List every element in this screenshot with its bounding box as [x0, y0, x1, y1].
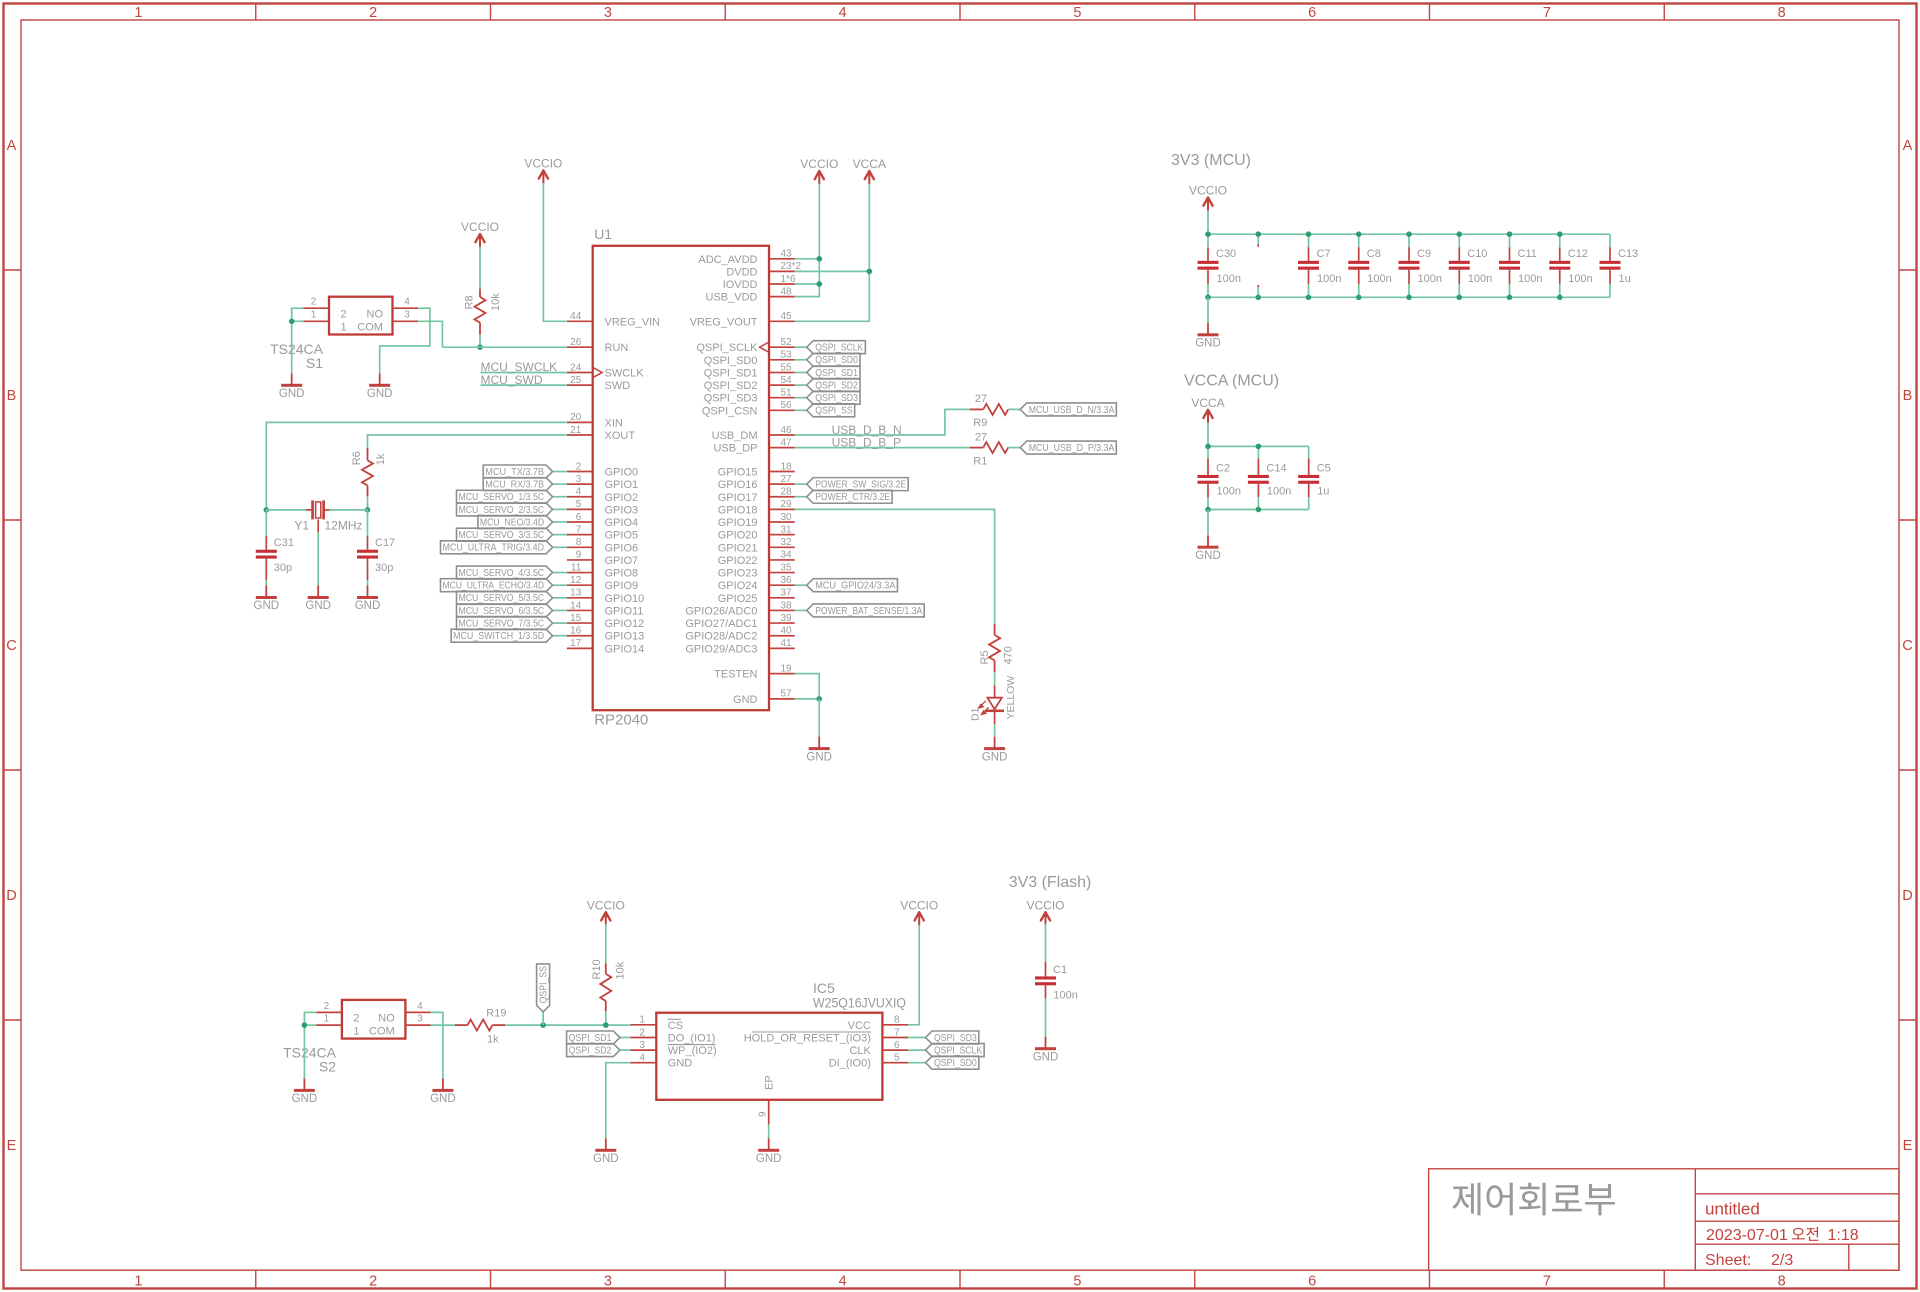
wire to MCU_ULTRA_TRIG/3.4D — [553, 546, 567, 548]
U1 pin 48 USB_VDD — [706, 286, 795, 303]
svg-text:GND: GND — [355, 600, 381, 612]
svg-text:TESTEN: TESTEN — [714, 669, 757, 681]
S1 pin 3 — [393, 320, 419, 322]
capacitor C2 100n — [1198, 446, 1241, 509]
wire to MCU_SERVO_5/3.5C — [553, 597, 567, 599]
svg-text:GND: GND — [1195, 550, 1221, 562]
svg-text:D1: D1 — [970, 707, 982, 721]
svg-text:QSPI_SCLK: QSPI_SCLK — [934, 1046, 982, 1057]
svg-text:GPIO5: GPIO5 — [605, 530, 639, 542]
wire to MCU_SERVO_2/3.5C — [553, 508, 567, 510]
svg-text:C14: C14 — [1266, 463, 1286, 475]
svg-text:GPIO16: GPIO16 — [718, 479, 758, 491]
net flag QSPI_SD2 — [807, 379, 860, 392]
S2 pin 3 — [405, 1024, 431, 1026]
svg-text:40: 40 — [781, 626, 793, 637]
svg-text:Y1: Y1 — [294, 518, 309, 532]
junction — [816, 696, 822, 702]
svg-text:GPIO4: GPIO4 — [605, 517, 639, 529]
svg-text:37: 37 — [781, 588, 793, 599]
U1 pin 19 TESTEN — [714, 663, 795, 680]
svg-text:6: 6 — [576, 512, 582, 523]
junction — [1256, 507, 1262, 513]
svg-text:QSPI_SD0: QSPI_SD0 — [815, 355, 858, 366]
svg-text:100n: 100n — [1217, 273, 1241, 285]
svg-text:29: 29 — [781, 499, 793, 510]
svg-text:XOUT: XOUT — [605, 430, 636, 442]
U1 pin 32 GPIO21 — [718, 537, 795, 554]
svg-text:COM: COM — [369, 1025, 395, 1037]
svg-text:44: 44 — [570, 311, 582, 322]
svg-text:MCU_SERVO_2/3.5C: MCU_SERVO_2/3.5C — [459, 505, 545, 516]
S1 pin 4 — [393, 307, 419, 309]
svg-text:HOLD_OR_RESET_(IO3): HOLD_OR_RESET_(IO3) — [744, 1033, 871, 1045]
wire to POWER_SW_SIG/3.2E — [795, 483, 807, 485]
svg-text:30: 30 — [781, 512, 793, 523]
svg-text:1k: 1k — [487, 1034, 499, 1046]
svg-text:4: 4 — [839, 1273, 847, 1289]
svg-text:32: 32 — [781, 537, 793, 548]
U1 pin 15 GPIO12 — [567, 613, 644, 630]
U1 pin 12 GPIO9 — [567, 575, 638, 592]
U1 pin 13 GPIO10 — [567, 588, 644, 605]
net flag MCU_TX/3.7B — [483, 465, 552, 478]
svg-text:C12: C12 — [1568, 248, 1588, 260]
junction — [1406, 295, 1412, 301]
svg-text:QSPI_SD0: QSPI_SD0 — [934, 1058, 977, 1069]
U1 pin 41 GPIO29/ADC3 — [685, 638, 794, 655]
svg-text:27: 27 — [781, 474, 793, 485]
svg-text:C7: C7 — [1317, 248, 1331, 260]
wire S1 pin1 join — [292, 320, 304, 322]
svg-text:C13: C13 — [1618, 248, 1638, 260]
svg-text:3: 3 — [404, 310, 410, 321]
svg-text:51: 51 — [781, 388, 793, 399]
svg-text:1k: 1k — [375, 453, 387, 465]
svg-text:A: A — [1903, 138, 1913, 154]
svg-text:57: 57 — [781, 689, 793, 700]
svg-text:GND: GND — [254, 600, 280, 612]
svg-text:GPIO29/ADC3: GPIO29/ADC3 — [685, 643, 757, 655]
svg-text:38: 38 — [781, 600, 793, 611]
svg-text:A: A — [7, 138, 17, 154]
ground under D1 — [994, 737, 996, 748]
power VCCIO at R8 — [475, 234, 484, 242]
svg-text:11: 11 — [571, 562, 582, 573]
svg-text:GND: GND — [430, 1093, 456, 1105]
S2 pin 4 — [405, 1011, 431, 1013]
junction — [289, 319, 295, 325]
net flag MCU_SERVO_2/3.5C — [457, 503, 553, 516]
svg-text:GPIO19: GPIO19 — [718, 517, 758, 529]
wire to QSPI_SD3 — [795, 397, 807, 399]
svg-text:100n: 100n — [1468, 273, 1492, 285]
svg-text:GPIO3: GPIO3 — [605, 504, 639, 516]
svg-text:12: 12 — [570, 575, 582, 586]
svg-text:C2: C2 — [1216, 463, 1230, 475]
wire QSPI_SS stub — [542, 1012, 544, 1025]
power VCCIO at R10 — [601, 912, 610, 920]
svg-text:1: 1 — [134, 5, 142, 21]
U1 pin 20 XIN — [567, 412, 623, 429]
svg-text:VCC: VCC — [848, 1020, 871, 1032]
wire to POWER_BAT_SENSE/1.3A — [795, 609, 807, 611]
junction RUN/R8 — [477, 344, 483, 350]
svg-text:QSPI_SD1: QSPI_SD1 — [569, 1033, 612, 1044]
wire VCCIO to VREG_VIN — [543, 183, 567, 321]
svg-text:R8: R8 — [464, 295, 476, 309]
U1 pin 53 QSPI_SD0 — [704, 350, 795, 367]
svg-text:20: 20 — [570, 412, 582, 423]
svg-text:8: 8 — [576, 537, 582, 548]
wire S1 left pins to GND — [292, 308, 304, 373]
U1 pin 45 VREG_VOUT — [690, 311, 795, 328]
net flag MCU_SERVO_3/3.5C — [457, 528, 553, 541]
svg-text:VCCIO: VCCIO — [800, 157, 838, 171]
svg-text:VCCIO: VCCIO — [587, 898, 625, 912]
ground under S2 left — [303, 1078, 305, 1089]
wire to MCU_GPIO24/3.3A — [795, 584, 807, 586]
svg-text:4: 4 — [639, 1053, 645, 1064]
ground under S1 left — [291, 373, 293, 384]
capacitor C11 100n — [1499, 234, 1542, 297]
svg-text:QSPI_SCLK: QSPI_SCLK — [696, 342, 758, 354]
ground under C1 — [1045, 1037, 1047, 1048]
svg-text:3: 3 — [639, 1040, 645, 1051]
net flag MCU_SERVO_5/3.5C — [457, 591, 553, 604]
IC5 pin 5 DI_(IO0) — [829, 1053, 908, 1070]
U1 pin 29 GPIO18 — [718, 499, 795, 516]
svg-text:VREG_VOUT: VREG_VOUT — [690, 316, 758, 328]
wire DVDD to VCCA — [795, 270, 870, 272]
net flag MCU_SERVO_6/3.5C — [457, 604, 553, 617]
svg-text:4: 4 — [839, 5, 847, 21]
capacitor C8 100n — [1348, 234, 1391, 297]
net flag MCU_USB_D_P/3.3A — [1020, 441, 1116, 454]
wire rail to ground — [1207, 510, 1209, 536]
svg-text:S2: S2 — [319, 1058, 336, 1074]
svg-text:C11: C11 — [1518, 248, 1537, 260]
power VCCIO at VREG_VIN — [539, 170, 548, 178]
junction crystal right — [365, 507, 371, 513]
svg-text:7: 7 — [1543, 1273, 1551, 1289]
svg-text:R1: R1 — [973, 455, 987, 467]
svg-text:MCU_SERVO_1/3.5C: MCU_SERVO_1/3.5C — [459, 492, 545, 503]
net flag POWER_BAT_SENSE/1.3A — [807, 604, 925, 617]
svg-text:C: C — [6, 638, 16, 654]
svg-text:24: 24 — [570, 362, 582, 373]
junction — [1306, 231, 1312, 237]
svg-text:1: 1 — [311, 310, 317, 321]
wire to MCU_SERVO_6/3.5C — [553, 609, 567, 611]
resistor R5 470 — [979, 624, 1015, 672]
svg-text:GPIO23: GPIO23 — [718, 568, 758, 580]
svg-text:R19: R19 — [486, 1008, 506, 1020]
junction — [1306, 295, 1312, 301]
svg-text:MCU_GPIO24/3.3A: MCU_GPIO24/3.3A — [815, 581, 896, 592]
junction — [1255, 295, 1261, 301]
svg-text:47: 47 — [781, 437, 793, 448]
net flag MCU_USB_D_N/3.3A — [1020, 403, 1116, 416]
U1 pin 38 GPIO26/ADC0 — [685, 600, 794, 617]
svg-text:2: 2 — [639, 1027, 645, 1038]
wire VCCIO to R8 — [479, 247, 481, 289]
svg-text:VCCIO: VCCIO — [900, 898, 938, 912]
svg-text:GPIO20: GPIO20 — [718, 530, 758, 542]
svg-text:9: 9 — [576, 550, 582, 561]
svg-text:untitled: untitled — [1705, 1199, 1760, 1218]
svg-text:13: 13 — [570, 588, 582, 599]
resistor R10 10k — [591, 959, 627, 1011]
svg-text:B: B — [1903, 388, 1913, 404]
S1 pin 2 — [303, 307, 329, 309]
U1 pin 26 RUN — [567, 337, 628, 354]
svg-text:GND: GND — [982, 751, 1008, 763]
svg-text:19: 19 — [781, 663, 793, 674]
svg-text:QSPI_SS: QSPI_SS — [539, 966, 550, 1004]
capacitor C7 100n — [1298, 234, 1341, 297]
svg-text:31: 31 — [781, 524, 793, 535]
svg-text:GND: GND — [367, 388, 393, 400]
wire to QSPI_SCLK — [795, 346, 807, 348]
svg-text:2: 2 — [369, 1273, 377, 1289]
svg-text:1*6: 1*6 — [781, 274, 796, 285]
wire S1 pin3 to RUN — [418, 321, 442, 347]
power VCCIO at IC5 VCC — [915, 912, 924, 920]
svg-text:D: D — [6, 888, 16, 904]
svg-text:RUN: RUN — [605, 342, 629, 354]
wire net MCU_SWD — [481, 384, 567, 386]
svg-text:SWD: SWD — [605, 380, 631, 392]
svg-text:USB_DM: USB_DM — [712, 430, 758, 442]
svg-text:2: 2 — [311, 297, 317, 308]
wire to QSPI_SD0 — [908, 1062, 925, 1064]
svg-text:QSPI_SD0: QSPI_SD0 — [704, 355, 758, 367]
crystal Y1 12MHz — [266, 500, 367, 532]
svg-text:GPIO6: GPIO6 — [605, 542, 639, 554]
svg-text:2/3: 2/3 — [1771, 1252, 1793, 1269]
svg-text:MCU_SERVO_3/3.5C: MCU_SERVO_3/3.5C — [459, 530, 545, 541]
net flag MCU_ULTRA_TRIG/3.4D — [440, 541, 552, 554]
svg-text:DO_(IO1): DO_(IO1) — [668, 1033, 716, 1045]
wire net MCU_SWCLK — [481, 372, 567, 374]
svg-text:EP: EP — [764, 1075, 776, 1090]
U1 pin 7 GPIO5 — [567, 524, 638, 541]
svg-text:GPIO21: GPIO21 — [718, 542, 758, 554]
svg-text:GPIO26/ADC0: GPIO26/ADC0 — [685, 605, 757, 617]
svg-text:27: 27 — [975, 393, 987, 405]
svg-text:C1: C1 — [1053, 964, 1067, 976]
U1 pin 5 GPIO3 — [567, 499, 638, 516]
U1 pin 17 GPIO14 — [567, 638, 644, 655]
svg-text:17: 17 — [570, 638, 582, 649]
resistor R1 27 — [970, 431, 1021, 467]
wire EP to ground — [768, 1125, 770, 1139]
wire to QSPI_SCLK — [908, 1049, 925, 1051]
svg-text:52: 52 — [781, 337, 793, 348]
svg-text:QSPI_SS: QSPI_SS — [815, 406, 853, 417]
net flag MCU_SWITCH_1/3.5D — [451, 629, 552, 642]
junction — [1205, 507, 1211, 513]
wire to MCU_SERVO_7/3.5C — [553, 622, 567, 624]
svg-text:55: 55 — [781, 362, 793, 373]
svg-text:100n: 100n — [1568, 273, 1592, 285]
ground under U1 — [818, 737, 820, 748]
svg-text:MCU_USB_D_P/3.3A: MCU_USB_D_P/3.3A — [1029, 443, 1115, 454]
svg-text:QSPI_SCLK: QSPI_SCLK — [815, 343, 863, 354]
U1 pin 14 GPIO11 — [567, 600, 644, 617]
svg-text:GPIO14: GPIO14 — [605, 643, 645, 655]
capacitor C17 30p — [357, 510, 395, 586]
svg-text:R5: R5 — [979, 650, 991, 664]
svg-text:GPIO11: GPIO11 — [605, 605, 644, 617]
svg-text:CLK: CLK — [849, 1045, 871, 1057]
wire pin57 GND — [795, 698, 819, 700]
U1 pin 25 SWD — [567, 375, 630, 392]
S1 pin 1 — [303, 320, 329, 322]
svg-text:R9: R9 — [973, 417, 987, 429]
ground under C17 — [367, 586, 369, 597]
power VCCIO above U1 — [815, 171, 824, 179]
wire S2 pin3 to R19 — [431, 1024, 456, 1026]
svg-text:DVDD: DVDD — [726, 266, 757, 278]
junction — [1205, 231, 1211, 237]
svg-text:12MHz: 12MHz — [325, 518, 363, 532]
svg-text:WP_(IO2): WP_(IO2) — [668, 1045, 717, 1057]
U1 pin 11 GPIO8 — [567, 562, 638, 579]
net flag MCU_NEO/3.4D — [478, 516, 553, 529]
svg-text:100n: 100n — [1267, 485, 1291, 497]
svg-text:16: 16 — [570, 626, 582, 637]
U1 pin 44 VREG_VIN — [567, 311, 660, 328]
wire XIN to crystal — [266, 422, 567, 510]
svg-text:6: 6 — [1308, 5, 1316, 21]
svg-text:5: 5 — [1073, 1273, 1081, 1289]
svg-text:XIN: XIN — [605, 417, 623, 429]
U1 pin 3 GPIO1 — [567, 474, 638, 491]
svg-text:5: 5 — [1073, 5, 1081, 21]
svg-text:35: 35 — [781, 562, 793, 573]
junction crystal left — [264, 507, 270, 513]
net flag MCU_SERVO_7/3.5C — [457, 617, 553, 630]
svg-text:MCU_SERVO_4/3.5C: MCU_SERVO_4/3.5C — [459, 568, 545, 579]
capacitor C30 100n — [1198, 234, 1241, 297]
svg-text:QSPI_SD2: QSPI_SD2 — [815, 381, 858, 392]
svg-text:C9: C9 — [1417, 248, 1431, 260]
svg-text:MCU_SWITCH_1/3.5D: MCU_SWITCH_1/3.5D — [453, 631, 544, 642]
svg-text:GND: GND — [593, 1153, 619, 1165]
junction QSPI_SS — [540, 1022, 546, 1028]
svg-text:GND: GND — [1033, 1051, 1059, 1063]
ground under VCCA bank — [1207, 535, 1209, 546]
svg-text:GND: GND — [279, 388, 305, 400]
svg-text:GPIO8: GPIO8 — [605, 568, 639, 580]
svg-text:QSPI_SD3: QSPI_SD3 — [704, 393, 758, 405]
wire R8 to RUN net — [479, 335, 481, 348]
junction — [1255, 231, 1261, 237]
wire rail to ground — [1207, 297, 1209, 323]
U1 pin 16 GPIO13 — [567, 626, 644, 643]
resistor R9 27 — [970, 393, 1021, 429]
svg-text:GPIO1: GPIO1 — [605, 479, 639, 491]
svg-text:MCU_TX/3.7B: MCU_TX/3.7B — [485, 467, 544, 478]
capacitor C31 30p — [256, 510, 294, 586]
svg-text:8: 8 — [1778, 1273, 1786, 1289]
wire to MCU_ULTRA_ECHO/3.4D — [553, 584, 567, 586]
svg-text:100n: 100n — [1053, 989, 1077, 1001]
switch S1 TS24CA body — [329, 297, 393, 335]
U1 pin 54 QSPI_SD2 — [704, 375, 795, 392]
svg-text:MCU_ULTRA_ECHO/3.4D: MCU_ULTRA_ECHO/3.4D — [442, 581, 544, 592]
net flag MCU_RX/3.7B — [483, 478, 552, 491]
wire VCCA rail — [795, 184, 870, 322]
svg-text:C: C — [1902, 638, 1912, 654]
junction — [1356, 231, 1362, 237]
wire bottom rail VCCA — [1208, 509, 1309, 511]
wire to ground — [818, 699, 820, 737]
net flag POWER_CTR/3.2E — [807, 490, 892, 503]
svg-text:QSPI_CSN: QSPI_CSN — [702, 405, 758, 417]
svg-text:2: 2 — [324, 1001, 330, 1012]
wire XOUT to R6 — [368, 435, 567, 448]
resistor R19 1k — [455, 1008, 506, 1046]
svg-text:VCCIO: VCCIO — [524, 157, 562, 171]
svg-text:CS: CS — [668, 1020, 683, 1032]
svg-text:6: 6 — [894, 1040, 900, 1051]
svg-text:USB_VDD: USB_VDD — [706, 292, 758, 304]
svg-text:4: 4 — [404, 297, 410, 308]
svg-text:3: 3 — [576, 474, 582, 485]
wire R6 to crystal right — [367, 497, 369, 510]
svg-text:R6: R6 — [351, 451, 363, 465]
svg-text:100n: 100n — [1367, 273, 1391, 285]
capacitor C1 100n — [1035, 924, 1078, 1037]
svg-text:RP2040: RP2040 — [594, 712, 648, 729]
svg-text:5: 5 — [894, 1053, 900, 1064]
wire S2 left pins to GND — [304, 1012, 316, 1078]
svg-text:26: 26 — [570, 337, 582, 348]
wire to QSPI_SD1 — [795, 372, 807, 374]
svg-text:QSPI_SD1: QSPI_SD1 — [815, 368, 858, 379]
svg-text:GPIO9: GPIO9 — [605, 580, 639, 592]
svg-text:1: 1 — [639, 1015, 645, 1026]
wire VCCA to rail — [1207, 423, 1209, 447]
svg-text:28: 28 — [781, 487, 793, 498]
svg-text:DI_(IO0): DI_(IO0) — [829, 1058, 871, 1070]
IC5 pin 8 VCC — [848, 1015, 909, 1032]
U1 pin 56 QSPI_CSN — [702, 400, 795, 417]
IC5 pin 1 CS — [631, 1015, 684, 1032]
wire to QSPI_SD3 — [908, 1037, 925, 1039]
svg-text:8: 8 — [894, 1015, 900, 1026]
svg-text:6: 6 — [1308, 1273, 1316, 1289]
svg-text:GPIO27/ADC1: GPIO27/ADC1 — [685, 618, 757, 630]
svg-text:2: 2 — [369, 5, 377, 21]
U1 pin 4 GPIO2 — [567, 487, 638, 504]
svg-text:GND: GND — [305, 600, 331, 612]
unplaced cap stubs — [1257, 234, 1259, 244]
svg-text:USB_D_B_P: USB_D_B_P — [832, 436, 901, 450]
svg-text:VREG_VIN: VREG_VIN — [605, 316, 661, 328]
IC5 pin 2 DO_(IO1) — [631, 1027, 716, 1044]
junction — [1205, 444, 1211, 450]
svg-text:5: 5 — [576, 499, 582, 510]
svg-text:VCCA (MCU): VCCA (MCU) — [1184, 372, 1279, 389]
svg-text:YELLOW: YELLOW — [1005, 676, 1017, 720]
wire TESTEN to GND — [795, 674, 819, 699]
svg-text:B: B — [7, 388, 17, 404]
wire to MCU_SWITCH_1/3.5D — [553, 635, 567, 637]
